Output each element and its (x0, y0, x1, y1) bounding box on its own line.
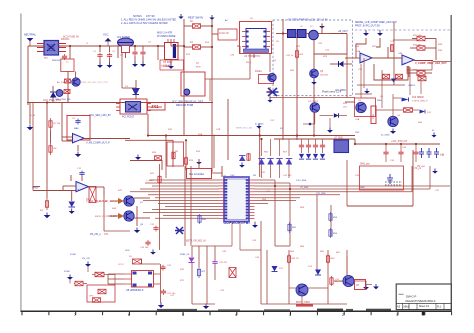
transistor Q3 (310, 69, 319, 78)
svg-text:-: - (361, 53, 362, 57)
capacitor C31 (387, 174, 393, 184)
pin PC1 l (116, 103, 120, 105)
svg-text:PS_ON_n: PS_ON_n (90, 233, 101, 236)
capacitor C20 (160, 265, 165, 271)
pin wire right (59, 47, 67, 49)
wire bottom gnd bus (261, 303, 347, 305)
svg-text:U3B: U3B (398, 53, 403, 55)
capacitor bank (320, 143, 325, 149)
wire U6 right net (255, 191, 321, 193)
svg-text:R61 1K: R61 1K (292, 258, 300, 260)
wire h250 (240, 249, 261, 251)
diode D8 (69, 202, 76, 208)
wire fb loop (374, 64, 408, 80)
wire (70, 175, 72, 181)
svg-text:U3 LM339: U3 LM339 (335, 90, 346, 92)
fuse F3 (193, 45, 201, 50)
svg-text:CN2: CN2 (372, 114, 375, 119)
capacitor CX (97, 53, 102, 59)
wire q8 in (110, 215, 118, 217)
svg-text:AC: AC (225, 19, 228, 22)
wire v364 (363, 58, 365, 88)
wire to D6 (330, 63, 338, 65)
wire q7 in (110, 200, 118, 202)
svg-text:GDPWOKVFBI: GDPWOKVFBI (224, 221, 250, 225)
wire drop dr (279, 139, 281, 156)
ground vs (432, 169, 438, 174)
resistor R71 (197, 267, 200, 278)
wire U6 right net (255, 188, 311, 190)
svg-text:R31 10K: R31 10K (413, 35, 422, 37)
transistor Q11 (343, 275, 354, 286)
frame text cells (157, 309, 391, 311)
svg-text:AC_DET: AC_DET (57, 81, 66, 84)
wire (142, 56, 144, 62)
ground R9 (44, 213, 51, 219)
wire drop r (415, 144, 417, 150)
wire V148 (147, 114, 149, 136)
ground (256, 124, 262, 129)
wire U6 right net (255, 197, 301, 199)
wire (308, 287, 328, 289)
wire (142, 46, 144, 50)
svg-text:V_FB_COMP_OUT_W: V_FB_COMP_OUT_W (95, 201, 118, 203)
capacitor bank (299, 143, 304, 149)
wire (136, 206, 138, 226)
wire (135, 80, 137, 88)
wire U6 pin net (143, 211, 219, 213)
svg-text:A3: A3 (397, 305, 401, 309)
wire to J2 (212, 33, 218, 35)
wire box bottom (347, 205, 413, 207)
resistor R5 (64, 90, 70, 94)
wire (413, 109, 420, 111)
wire (214, 265, 216, 280)
transistor Q6 (388, 116, 398, 126)
wire q2 e (314, 112, 316, 124)
svg-text:NOTES: NOTES (133, 15, 142, 18)
wire (114, 275, 116, 286)
wire U6 pin net (150, 179, 219, 181)
svg-text:C_AMP: C_AMP (146, 179, 154, 182)
transistor Q4 box (259, 75, 274, 84)
IC U2 pins (242, 31, 270, 48)
svg-text:LF1 FILTER: LF1 FILTER (117, 36, 130, 39)
wire vref0 (33, 186, 40, 188)
diode bank (299, 154, 304, 159)
svg-text:nPG: nPG (89, 295, 94, 297)
diode DR2 (267, 159, 273, 165)
svg-text:KEA/AUTOVE100-0062-0: KEA/AUTOVE100-0062-0 (406, 299, 436, 303)
wire (301, 149, 303, 153)
wire (161, 160, 163, 170)
page left edge (20, 14, 22, 312)
wire (237, 45, 240, 47)
IC U6 pins right (246, 179, 255, 219)
svg-text:R:1: R:1 (437, 305, 442, 309)
pin wire right (59, 43, 67, 45)
wire V166 (165, 136, 167, 179)
wire vertical V314 (313, 40, 315, 135)
svg-text:Vrf: Vrf (356, 284, 359, 287)
wire cap drop (109, 46, 111, 52)
wire vertical V297 (296, 38, 298, 141)
wire between opamps (372, 57, 402, 59)
wire (410, 47, 417, 49)
wire in2 (62, 140, 73, 142)
wire drop dr2 (288, 165, 290, 179)
wire (425, 72, 432, 74)
svg-text:C16 104: C16 104 (140, 247, 149, 249)
diode bank (313, 154, 318, 159)
capacitor r (413, 150, 418, 156)
wire bus mid2 (125, 139, 173, 141)
svg-text:-: - (77, 182, 78, 186)
wire v210 (209, 79, 211, 101)
resistor R30 (172, 152, 175, 158)
resistor R34 (383, 74, 390, 79)
ground mid (135, 155, 141, 160)
svg-text:NEUTRAL: NEUTRAL (24, 32, 37, 36)
wire V347 (346, 160, 348, 206)
ground Q3 (311, 80, 317, 85)
diode D5 (309, 30, 319, 40)
capacitor C5 bulk electrolytic (165, 39, 179, 60)
wire long net1 (296, 185, 450, 187)
transistor Q12 (56, 90, 63, 97)
wire drop left (29, 103, 31, 125)
pin wire left (37, 43, 44, 45)
wire U6 right net (255, 179, 276, 181)
wire U6 pin net (148, 194, 219, 196)
wire feedback (356, 38, 366, 58)
pin PC1 r (147, 110, 151, 112)
wire (122, 87, 136, 89)
transistor Q5 (356, 102, 366, 112)
bridge rectifier BD1 (44, 41, 59, 56)
wire U6 pin net (143, 200, 219, 202)
diode bank (306, 154, 311, 159)
ground C4 (140, 62, 146, 67)
svg-text:BSTR_VCC_SB: BSTR_VCC_SB (236, 128, 252, 130)
wire T1 down (67, 72, 69, 103)
transformer T2 box (181, 72, 205, 96)
diode DR1 (258, 159, 264, 165)
frame tick marks (22, 312, 452, 316)
svg-text:KBP206: KBP206 (52, 60, 61, 62)
wire (92, 274, 95, 276)
wire V261 (260, 221, 262, 304)
resistor R50 blue (198, 214, 201, 224)
wire V62 (61, 103, 63, 142)
wire U6 pin net (152, 209, 219, 211)
box bottom-left (87, 285, 115, 302)
svg-text:U7 7905: U7 7905 (334, 138, 343, 140)
wire U6 pin net (163, 214, 219, 216)
wire V347b (346, 250, 348, 282)
wire (63, 185, 76, 187)
error amp box (67, 116, 90, 141)
svg-text:C2B: C2B (216, 129, 221, 131)
wire t2 out (205, 78, 250, 80)
svg-text:CTL: CTL (104, 233, 109, 236)
arrow marks Q7 Q8 (118, 198, 124, 219)
connector JX box (148, 103, 166, 111)
ground Q6 (390, 129, 396, 134)
capacitor r (383, 150, 388, 156)
ground U1A (75, 152, 81, 158)
wire D2 down (52, 98, 54, 103)
wire (192, 303, 215, 305)
wire d16a (320, 115, 333, 117)
blue text rows mid (172, 101, 204, 107)
wire r71 up (198, 246, 200, 267)
wire top u8 (142, 263, 161, 265)
wire U6 right net (255, 185, 297, 187)
wire (221, 166, 223, 177)
wire U6 pin net (145, 182, 219, 184)
ground 4l (431, 133, 436, 138)
wire v410 (409, 67, 411, 95)
box aux (160, 60, 184, 70)
wire (117, 46, 119, 58)
misc labels (118, 26, 445, 297)
pin wire right (59, 51, 67, 53)
wire U6 pin net (155, 217, 219, 219)
diode D12 (272, 266, 278, 272)
wire sec bus a (300, 138, 355, 140)
pin PC1 r (147, 106, 151, 108)
connector CN2 (371, 106, 376, 124)
wire (239, 46, 241, 53)
svg-text:43YY28: 43YY28 (146, 15, 155, 18)
svg-text:+5V STBY PWR-ON +12V -12V: +5V STBY PWR-ON +12V -12V +3.3V (287, 18, 328, 21)
pin PC1 r (147, 103, 151, 105)
wire (221, 173, 223, 177)
resistor R31 (417, 36, 425, 41)
resistor R21 (295, 48, 298, 60)
diode DR3 (276, 159, 282, 165)
wire left drop (27, 46, 29, 105)
ground (209, 15, 214, 20)
wire V33 left (32, 103, 34, 191)
svg-text:0961: 0961 (403, 305, 409, 309)
wire h246b (192, 245, 232, 247)
ground mid2 (203, 304, 209, 310)
pin PC1 l (116, 106, 120, 108)
VCC symbol (105, 38, 112, 46)
svg-text:2. ALL CAPS IN uF 50V UNLESS: 2. ALL CAPS IN uF 50V UNLESS NOTED (121, 22, 168, 25)
svg-text:+12V_RTN_FLT: +12V_RTN_FLT (391, 141, 408, 143)
svg-text:4L_GND: 4L_GND (255, 123, 264, 125)
wire (74, 283, 75, 285)
frame bottom border line (21, 310, 452, 312)
wire (366, 284, 373, 286)
resistor R32 (417, 46, 425, 51)
wire (321, 24, 323, 34)
wire lf1 down (121, 53, 123, 89)
wire v158 (157, 46, 159, 60)
wire out to edge (433, 61, 451, 63)
wire (385, 156, 387, 162)
svg-text:V_RTN_SNS_P: V_RTN_SNS_P (412, 100, 428, 102)
diode D11 (420, 110, 426, 114)
ground top3 (319, 24, 325, 29)
wire d16b (339, 115, 348, 117)
diode D15 (391, 79, 396, 83)
wire to R60 (376, 109, 404, 111)
wire q9 in (289, 287, 297, 289)
transistor Q10 (72, 78, 80, 86)
wire u6 d1 (231, 222, 233, 247)
resistor R81 (95, 272, 104, 277)
svg-text:C25 1n: C25 1n (286, 55, 294, 57)
resistor R52 (288, 222, 291, 233)
svg-text:U3A: U3A (356, 50, 361, 53)
box res controller (187, 169, 212, 179)
resistor R60 (404, 108, 413, 113)
wire (425, 38, 436, 40)
capacitor r (398, 150, 403, 156)
wire (103, 187, 105, 196)
page right edge (450, 15, 452, 311)
svg-text:C41 16V: C41 16V (283, 175, 292, 177)
misc labels blue (140, 85, 416, 256)
micro labels blue (52, 19, 382, 256)
capacitor C12 (79, 171, 84, 177)
resistor R28 (155, 156, 162, 161)
wire long vertical V283 (282, 19, 284, 140)
ground bl2 (85, 262, 91, 267)
wire u6 d2 (239, 222, 241, 251)
wire u8 a (108, 273, 124, 275)
wire v421 (420, 75, 422, 94)
wire (387, 47, 389, 58)
svg-text:PROT_IN PG_OUT SD: PROT_IN PG_OUT SD (355, 24, 380, 27)
wire c22 up (214, 246, 216, 260)
wire U6 pin net (158, 203, 219, 205)
IC U2 outline box (240, 22, 272, 54)
wire (345, 101, 355, 103)
wire (425, 47, 436, 49)
snubber box (360, 166, 404, 190)
diode DR0 (239, 156, 246, 162)
wire cap to gnd (109, 59, 111, 64)
wire (365, 30, 367, 31)
wire drop (315, 139, 317, 143)
capacitor bank (306, 143, 311, 149)
op-amp U5 (76, 182, 89, 192)
svg-text:REM-ON 5VSB: REM-ON 5VSB (176, 104, 194, 107)
varistor MOV1 (118, 38, 134, 52)
svg-text:JP OPEN FRAME: JP OPEN FRAME (157, 35, 176, 38)
wire vertical v394 (393, 22, 395, 85)
wire (365, 281, 367, 284)
op-amp U1A (73, 134, 85, 143)
wire (276, 33, 288, 35)
wire h94 (355, 93, 372, 95)
svg-text:ICE2A: ICE2A (255, 70, 262, 73)
ground bl1 (67, 275, 73, 280)
wire u8 c (108, 283, 124, 285)
wire (308, 149, 310, 153)
resistor R29 (184, 156, 187, 166)
capacitor bank (313, 143, 318, 149)
wire bus AC0 (27, 102, 213, 104)
pin wire left (37, 47, 44, 49)
wire vertical V47 (46, 103, 48, 199)
ground c16 (150, 250, 156, 255)
wire long net3 (320, 191, 412, 193)
wire q11 out (354, 280, 366, 282)
svg-text:PS_ON: PS_ON (82, 258, 90, 260)
wire V289 (288, 250, 290, 304)
wire V186 (185, 140, 187, 170)
svg-text:C2C: C2C (270, 120, 275, 122)
ground br (373, 284, 379, 289)
svg-text:R2A: R2A (198, 133, 203, 136)
wire q9 down (301, 296, 303, 304)
wire q6 v (392, 94, 394, 116)
wire ctrl to U6 (212, 172, 223, 174)
svg-text:V_COMP_VREF_ADJ_OUT: V_COMP_VREF_ADJ_OUT (415, 62, 447, 65)
svg-text:PC1 PC817: PC1 PC817 (122, 117, 135, 119)
wire box right edge (412, 150, 414, 206)
svg-text:VDD: VDD (125, 250, 130, 252)
resistor R53 (329, 212, 332, 222)
wire v382 (381, 70, 383, 108)
svg-text:250VAC: 250VAC (61, 38, 70, 41)
wire MOV down (125, 53, 127, 59)
wire opamp out (414, 60, 433, 62)
transistor Q8 (124, 211, 134, 221)
svg-text:MOV 2 A 47R: MOV 2 A 47R (157, 32, 172, 35)
wire drop dr (261, 139, 263, 156)
wire c20 down (160, 264, 162, 303)
wire to d10 (393, 97, 401, 99)
wire h246 (275, 245, 290, 247)
wire main vertical V184 (183, 19, 185, 136)
diode D13 (315, 270, 321, 276)
svg-text:5VSB: 5VSB (64, 271, 70, 273)
resistor R62 (326, 254, 329, 264)
wire (141, 259, 143, 264)
wire (62, 186, 64, 191)
svg-text:+B_OUT: +B_OUT (338, 30, 348, 33)
wire h70 (407, 69, 432, 71)
resistor R80 (75, 281, 83, 286)
resistor R35 (396, 74, 403, 79)
wire V317 (316, 195, 318, 270)
svg-text:U8 LM358/SO-8: U8 LM358/SO-8 (126, 289, 144, 292)
wire d14 up (191, 246, 193, 257)
ground left2 (27, 125, 34, 131)
ground q11 (363, 285, 369, 290)
diode D2 (50, 92, 57, 98)
ground q2 (327, 128, 333, 133)
wire (406, 66, 408, 74)
diode D14 (189, 258, 195, 263)
capacitor C3 (132, 50, 137, 56)
resistor R9 (45, 198, 48, 210)
svg-text:5VSB: 5VSB (70, 254, 76, 256)
wire U6 right net (255, 194, 341, 196)
svg-text:V5_SNS: V5_SNS (300, 187, 309, 189)
svg-text:V3.3_SNS: V3.3_SNS (296, 180, 307, 182)
ground U6 (252, 223, 258, 228)
ground D8 (69, 209, 75, 214)
svg-text:VREF2: VREF2 (408, 85, 416, 87)
